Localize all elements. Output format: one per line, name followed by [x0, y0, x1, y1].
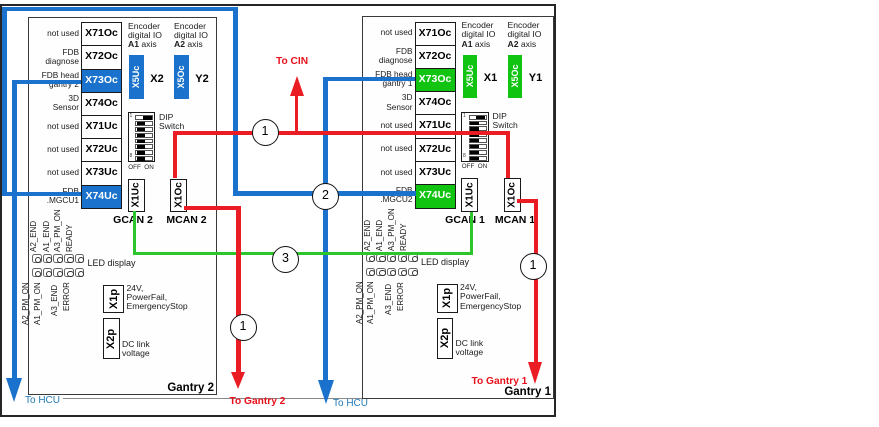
label To Gantry 2 — [230, 396, 286, 407]
label A3_PM_ON — [387, 208, 396, 251]
wire red net To CIN stub — [295, 94, 298, 133]
connector X73Oc (gantry 1) — [415, 68, 456, 93]
label A3_END — [384, 284, 393, 315]
connector X74Oc (gantry 2) — [81, 92, 122, 117]
LED display indicators (gantry 1) — [366, 254, 376, 263]
label FDB diagnose — [29, 48, 79, 66]
node 1 (to gantry 1) — [520, 253, 547, 280]
label Y2 — [191, 73, 213, 85]
label DIP Switch — [159, 113, 184, 132]
label MCAN 1 — [490, 214, 540, 226]
label Gantry 2 — [167, 382, 214, 394]
wire blue arrow To HCU (left) — [6, 378, 22, 402]
label not used — [29, 168, 79, 177]
wire red net vertical to X1Oc MCAN1 — [506, 131, 510, 178]
label not used — [29, 145, 79, 154]
label FDB .MGCU1 — [29, 187, 79, 205]
label To HCU (right) — [333, 398, 368, 409]
outer frame — [0, 4, 556, 417]
wire red arrow To CIN — [290, 76, 304, 96]
label Encoder digital IO A1 axis — [128, 22, 162, 50]
label A2_END — [29, 220, 38, 251]
connector X72Uc (gantry 2) — [81, 138, 122, 163]
label To CIN — [276, 56, 308, 67]
label not used — [363, 121, 413, 130]
label GCAN 2 — [108, 214, 158, 226]
control unit panel Gantry 1 — [362, 16, 555, 399]
label 24V PowerFail EmergencyStop — [127, 284, 188, 312]
label not used — [363, 144, 413, 153]
label GCAN 1 — [440, 214, 490, 226]
label Encoder digital IO A2 axis — [508, 21, 542, 49]
label To Gantry 1 — [472, 376, 528, 387]
label A2_PM_ON — [21, 282, 30, 325]
wire blue net B stub from X73Oc gantry2 — [12, 80, 81, 84]
label FDB .MGCU2 — [363, 186, 413, 204]
wire red arrow To Gantry 2 — [231, 372, 245, 389]
label FDB head gantry 2 — [29, 71, 79, 89]
label A3_END — [50, 284, 59, 315]
label A1_END — [42, 220, 51, 251]
label READY — [399, 223, 408, 251]
label A1_PM_ON — [366, 282, 375, 325]
label Encoder digital IO A1 axis — [462, 21, 496, 49]
label 24V PowerFail EmergencyStop — [460, 283, 521, 311]
connector X2p (DC link voltage) — [103, 318, 120, 359]
wire blue net A top horizontal — [2, 7, 238, 12]
label FDB head gantry 1 — [363, 70, 413, 88]
connector X71Oc (gantry 2) — [81, 22, 122, 47]
wire green net GCAN2 vertical — [133, 211, 136, 255]
connector X1p (24V, PowerFail, EmergencyStop) — [103, 285, 124, 314]
connector X72Uc (gantry 1) — [415, 138, 456, 163]
node 1 (to gantry 2) — [230, 314, 257, 341]
wire red net top horizontal — [173, 131, 510, 135]
connector X2p (DC link voltage) — [437, 318, 454, 359]
wire blue net A stub to X74Uc gantry2 — [2, 192, 81, 197]
label ERROR — [396, 282, 405, 311]
label LED display — [88, 259, 136, 268]
label Encoder digital IO A2 axis — [174, 22, 208, 50]
label FDB diagnose — [363, 47, 413, 65]
connector X71Uc (gantry 1) — [415, 114, 456, 139]
connector X5Uc (encoder A1 axis, gantry 2) — [129, 55, 144, 99]
connector X5Uc (encoder A1 axis, gantry 1) — [463, 55, 478, 99]
connector X1Oc (MCAN 2) — [170, 179, 187, 213]
connector X1p (24V, PowerFail, EmergencyStop) — [437, 284, 458, 313]
wire blue net C stub from X73Oc gantry1 — [325, 77, 415, 81]
label A2_PM_ON — [355, 282, 364, 325]
wire red net MCAN1 exit horizontal — [517, 199, 538, 203]
wire red net vertical To Gantry 1 — [534, 199, 538, 362]
wire blue net C vertical to HCU — [323, 77, 328, 380]
connector X72Oc (gantry 1) — [415, 45, 456, 70]
node 2 (FDB cross link) — [312, 183, 339, 210]
label 3D Sensor — [363, 93, 413, 111]
connector X74Uc (gantry 2) — [81, 185, 122, 210]
connector X74Uc (gantry 1) — [415, 184, 456, 209]
wire blue net A mid vertical — [233, 7, 238, 196]
connector X5Oc (encoder A2 axis, gantry 1) — [508, 55, 523, 99]
label READY — [65, 224, 74, 252]
label Y1 — [525, 72, 547, 84]
connector X74Oc (gantry 1) — [415, 91, 456, 116]
label MCAN 2 — [162, 214, 212, 226]
connector X71Uc (gantry 2) — [81, 115, 122, 140]
node 3 (GCAN link) — [272, 246, 299, 273]
connector X73Uc (gantry 1) — [415, 161, 456, 186]
wire green net horizontal — [133, 252, 473, 255]
connector X5Oc (encoder A2 axis, gantry 2) — [174, 55, 189, 99]
label A1_END — [375, 220, 384, 251]
connector X72Oc (gantry 2) — [81, 45, 122, 70]
label X1 — [480, 72, 502, 84]
DIP switch (gantry 1) — [461, 112, 489, 162]
label OFF ON — [461, 163, 489, 170]
wire blue arrow To HCU (right) — [318, 380, 334, 404]
wire green net GCAN1 vertical — [470, 212, 473, 255]
wire red arrow To Gantry 1 — [528, 362, 542, 384]
wire blue net A horizontal to X74Uc gantry1 — [233, 191, 416, 196]
connector X73Uc (gantry 2) — [81, 161, 122, 186]
wire faint bottom rule — [63, 398, 554, 399]
wire red net vertical to X1Oc MCAN2 — [173, 131, 177, 178]
label DIP Switch — [493, 112, 518, 131]
label To HCU (left) — [25, 395, 60, 406]
label Gantry 1 — [504, 386, 551, 398]
connector X73Oc (gantry 2) — [81, 69, 122, 94]
LED display indicators (gantry 2) — [32, 254, 42, 263]
label OFF ON — [127, 164, 155, 171]
label not used — [29, 29, 79, 38]
label A3_PM_ON — [53, 209, 62, 252]
wire red net vertical To Gantry 2 — [236, 206, 240, 373]
connector X1Uc (GCAN 1) — [461, 178, 478, 212]
control unit panel Gantry 2 — [28, 17, 217, 395]
label A1_PM_ON — [33, 282, 42, 325]
connector X1Uc (GCAN 2) — [128, 179, 145, 213]
node 1 (CAN bus to CIN) — [252, 119, 279, 146]
label LED display — [421, 258, 469, 267]
label DC link voltage — [456, 339, 484, 358]
connector X71Oc (gantry 1) — [415, 22, 456, 47]
label not used — [363, 168, 413, 177]
wire blue net A left vertical — [2, 7, 7, 197]
wire blue net B vertical to HCU — [12, 80, 17, 379]
label not used — [29, 122, 79, 131]
label A2_END — [363, 220, 372, 251]
label ERROR — [62, 282, 71, 311]
label DC link voltage — [122, 340, 150, 359]
wire red net MCAN2 exit horizontal — [184, 206, 241, 210]
label not used — [363, 28, 413, 37]
label 3D Sensor — [29, 94, 79, 112]
DIP switch (gantry 2) — [128, 112, 156, 162]
label X2 — [146, 73, 168, 85]
connector X1Oc (MCAN 1) — [504, 178, 521, 212]
